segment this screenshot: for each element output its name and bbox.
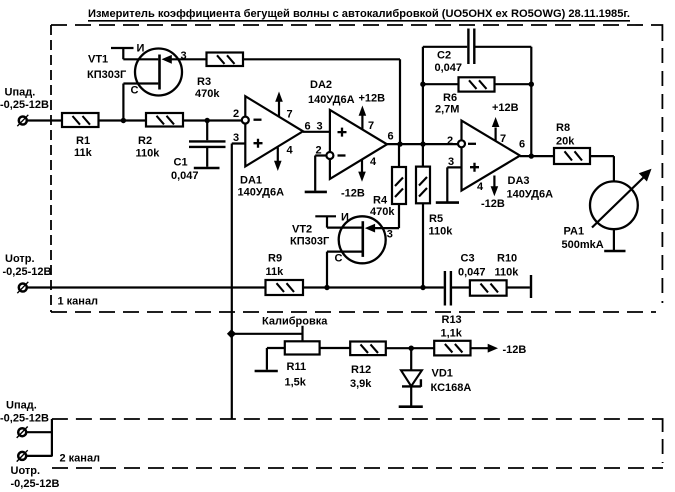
wire terminal to R1 [27,119,63,121]
svg-text:R10: R10 [497,252,517,264]
wire R5 down to Uотр line [422,203,424,287]
wire ch2 Uотр to border [26,455,52,457]
svg-text:4: 4 [287,144,294,156]
svg-text:Uотр.: Uотр. [5,253,35,265]
svg-text:3: 3 [387,229,393,241]
svg-text:R11: R11 [287,361,307,373]
resistor R6 [459,77,495,91]
DA2 pin 4 supply arrow [361,160,363,173]
node R6 right [529,82,534,87]
svg-text:R3: R3 [197,76,211,88]
svg-text:PA1: PA1 [564,225,585,237]
svg-text:VT2: VT2 [292,223,312,235]
wire calibration arrow into DA1 pin3 rail [233,333,303,335]
wire ch2 Uпад to border [26,431,52,433]
svg-text:R13: R13 [442,314,462,326]
svg-text:140УД6А: 140УД6А [308,94,355,106]
svg-text:-12В: -12В [481,198,505,210]
DA1 pin 7 supply arrow [278,100,280,116]
svg-text:2: 2 [447,135,453,147]
wire R4 to VT2 gate [374,204,399,228]
svg-text:110k: 110k [429,225,454,237]
svg-text:4: 4 [370,156,377,168]
terminal Uотр channel 2 [18,452,26,460]
svg-text:2,7М: 2,7М [435,104,459,116]
transistor VT2 КП303Г (JFET) [339,216,386,263]
svg-text:-0,25-12В: -0,25-12В [0,99,49,111]
svg-text:-12В: -12В [503,344,527,356]
svg-text:DA2: DA2 [310,79,332,91]
resistor R9 [266,280,304,295]
svg-text:-12В: -12В [341,187,365,199]
wire R9 to C3 [303,286,444,288]
svg-text:КП303Г: КП303Г [290,235,330,247]
ground below C1 [194,167,220,170]
svg-text:-0,25-12В: -0,25-12В [11,478,60,490]
VT2 drain wire С [327,252,362,288]
wire meter to ground [613,229,615,250]
svg-text:1,1k: 1,1k [441,327,463,339]
diode VD1 КС168А (zener) [410,348,412,370]
svg-text:-0,25-12В: -0,25-12В [3,266,52,278]
svg-text:7: 7 [287,109,293,121]
wire DA3 output to R8 [520,155,554,157]
terminal Uотр channel 1 [19,284,27,292]
wire left feedback rail [422,47,424,167]
resistor R2 [146,113,183,127]
svg-text:Uпад.: Uпад. [5,87,36,99]
resistor R10 [470,280,507,295]
transistor VT1 КП303Г (JFET) [135,49,182,96]
svg-text:3: 3 [181,50,187,62]
node junction R1/R2/VT1 drain [121,118,126,123]
svg-text:R1: R1 [76,135,90,147]
resistor R8 [554,148,590,164]
resistor R3 [207,53,244,67]
svg-text:6: 6 [388,131,394,143]
svg-text:Uотр.: Uотр. [11,465,41,477]
svg-text:140УД6А: 140УД6А [238,186,285,198]
svg-text:20k: 20k [556,136,575,148]
wire R2 to DA1 inverting input [183,119,242,121]
DA3 pin 3 wire to ground [447,167,461,201]
svg-text:140УД6А: 140УД6А [507,188,554,200]
node VT2 drain on Uотр line [324,285,329,290]
resistor R12 [350,342,386,356]
VT1 drain wire С [123,84,158,120]
svg-text:VT1: VT1 [88,54,108,66]
svg-text:7: 7 [500,133,506,145]
svg-text:R8: R8 [556,122,570,134]
svg-text:110k: 110k [495,267,520,279]
resistor R1 [62,113,99,127]
svg-text:R4: R4 [373,194,388,206]
svg-text:VD1: VD1 [432,368,453,380]
svg-text:3: 3 [233,132,239,144]
svg-text:И: И [137,43,145,55]
VT1 source wire И [111,48,158,59]
channel 2 dashed enclosure [52,418,645,420]
svg-text:R2: R2 [138,135,152,147]
svg-text:C1: C1 [174,156,188,168]
svg-text:11k: 11k [74,147,93,159]
resistor R4 [398,144,400,167]
ground VD1 [399,405,423,408]
DA2 pin 7 supply arrow [361,114,363,129]
capacitor C2 [423,46,467,48]
node DA3 pin2 / C2 R6 R5 branch [420,141,425,146]
resistor R5 [416,167,430,204]
svg-text:470k: 470k [370,206,395,218]
wire R3 feedback to DA2 output [243,59,400,144]
wire R12 to R13 [386,347,434,349]
DA3 pin 4 supply arrow [493,176,495,187]
terminal Uпад channel 1 [19,117,27,125]
VT1 gate wire with arrow [172,58,207,60]
op-amp DA3 140УД6А [462,121,521,191]
wire R6 row [423,83,531,85]
resistor R13 [434,341,470,356]
svg-text:1 канал: 1 канал [58,295,99,307]
wire R13 to -12В arrow [471,347,489,349]
wire R1 to R2 [99,119,147,121]
wire R8 to meter [590,156,614,181]
svg-text:4: 4 [477,181,484,193]
svg-text:С: С [335,252,343,264]
wire DA1 output to DA2 pin 3 [303,131,330,133]
svg-text:КП303Г: КП303Г [87,69,127,81]
node R12/R13/VD1 [409,346,414,351]
svg-text:3: 3 [317,120,323,132]
svg-text:6: 6 [519,139,525,151]
svg-text:DA1: DA1 [240,174,262,186]
svg-text:C3: C3 [461,252,475,264]
meter PA1 500mkA [590,181,638,229]
DA2 pin 2 wire to ground [315,156,327,191]
svg-text:110k: 110k [136,147,161,159]
op-amp DA2 140УД6А [330,110,387,179]
svg-text:0,047: 0,047 [171,170,199,182]
svg-text:+12В: +12В [492,102,519,114]
ground DA2 pin 2 [305,191,327,194]
svg-text:6: 6 [305,120,311,132]
svg-text:И: И [341,211,349,223]
ground R11 [255,370,278,373]
svg-text:R5: R5 [429,213,443,225]
svg-text:2: 2 [233,108,239,120]
DA1 pin 4 supply arrow [277,147,279,161]
svg-text:R9: R9 [268,253,282,265]
wire R11 left to ground [267,348,285,370]
channel 1 dashed enclosure [51,24,644,26]
node DA2 output / R3 / R4 [397,141,402,146]
svg-text:КС168А: КС168А [431,382,472,394]
wire terminal to R9 [27,286,266,288]
node junction R2/C1 [205,118,210,123]
ground DA3 pin 3 [436,201,459,204]
wire DA1 pin 3 vertical to calibration [232,144,246,420]
wire R10 to end bar [507,286,530,288]
capacitor C3 [445,271,451,306]
node DA3 output / feedback [529,153,534,158]
capacitor C1 [206,121,208,141]
svg-text:1,5k: 1,5k [285,377,307,389]
svg-text:C2: C2 [437,49,451,61]
wire right feedback rail to DA3 output [530,47,532,156]
wire R11 to R12 [320,347,351,349]
terminal bar R10 end [530,275,532,298]
svg-text:R6: R6 [443,92,457,104]
potentiometer R11 [285,341,320,354]
wire R11 wiper [301,326,303,342]
wire DA2 output to DA3 pin 2 [387,143,458,145]
svg-text:0,047: 0,047 [435,62,463,74]
svg-text:R12: R12 [351,364,371,376]
svg-text:Калибровка: Калибровка [262,315,328,327]
VT2 source wire И [315,216,362,227]
svg-text:Uпад.: Uпад. [6,400,37,412]
svg-text:2 канал: 2 канал [60,453,101,465]
DA3 pin 7 supply arrow [495,128,497,141]
svg-text:0,047: 0,047 [458,267,486,279]
ground meter [604,250,625,253]
svg-text:500mkA: 500mkA [562,239,604,251]
svg-text:3,9k: 3,9k [350,378,372,390]
svg-text:470k: 470k [195,88,220,100]
node R6 left [420,82,425,87]
node R5 on Uотр line [420,285,425,290]
svg-text:3: 3 [448,156,454,168]
svg-text:11k: 11k [266,266,285,278]
svg-text:Измеритель коэффициента бегуще: Измеритель коэффициента бегущей волны с … [88,8,630,20]
svg-text:DA3: DA3 [508,175,530,187]
svg-text:-0,25-12В: -0,25-12В [0,413,49,425]
svg-text:С: С [131,85,139,97]
svg-text:7: 7 [368,120,374,132]
svg-text:+12В: +12В [359,93,386,105]
op-amp DA1 140УД6А [245,96,303,166]
